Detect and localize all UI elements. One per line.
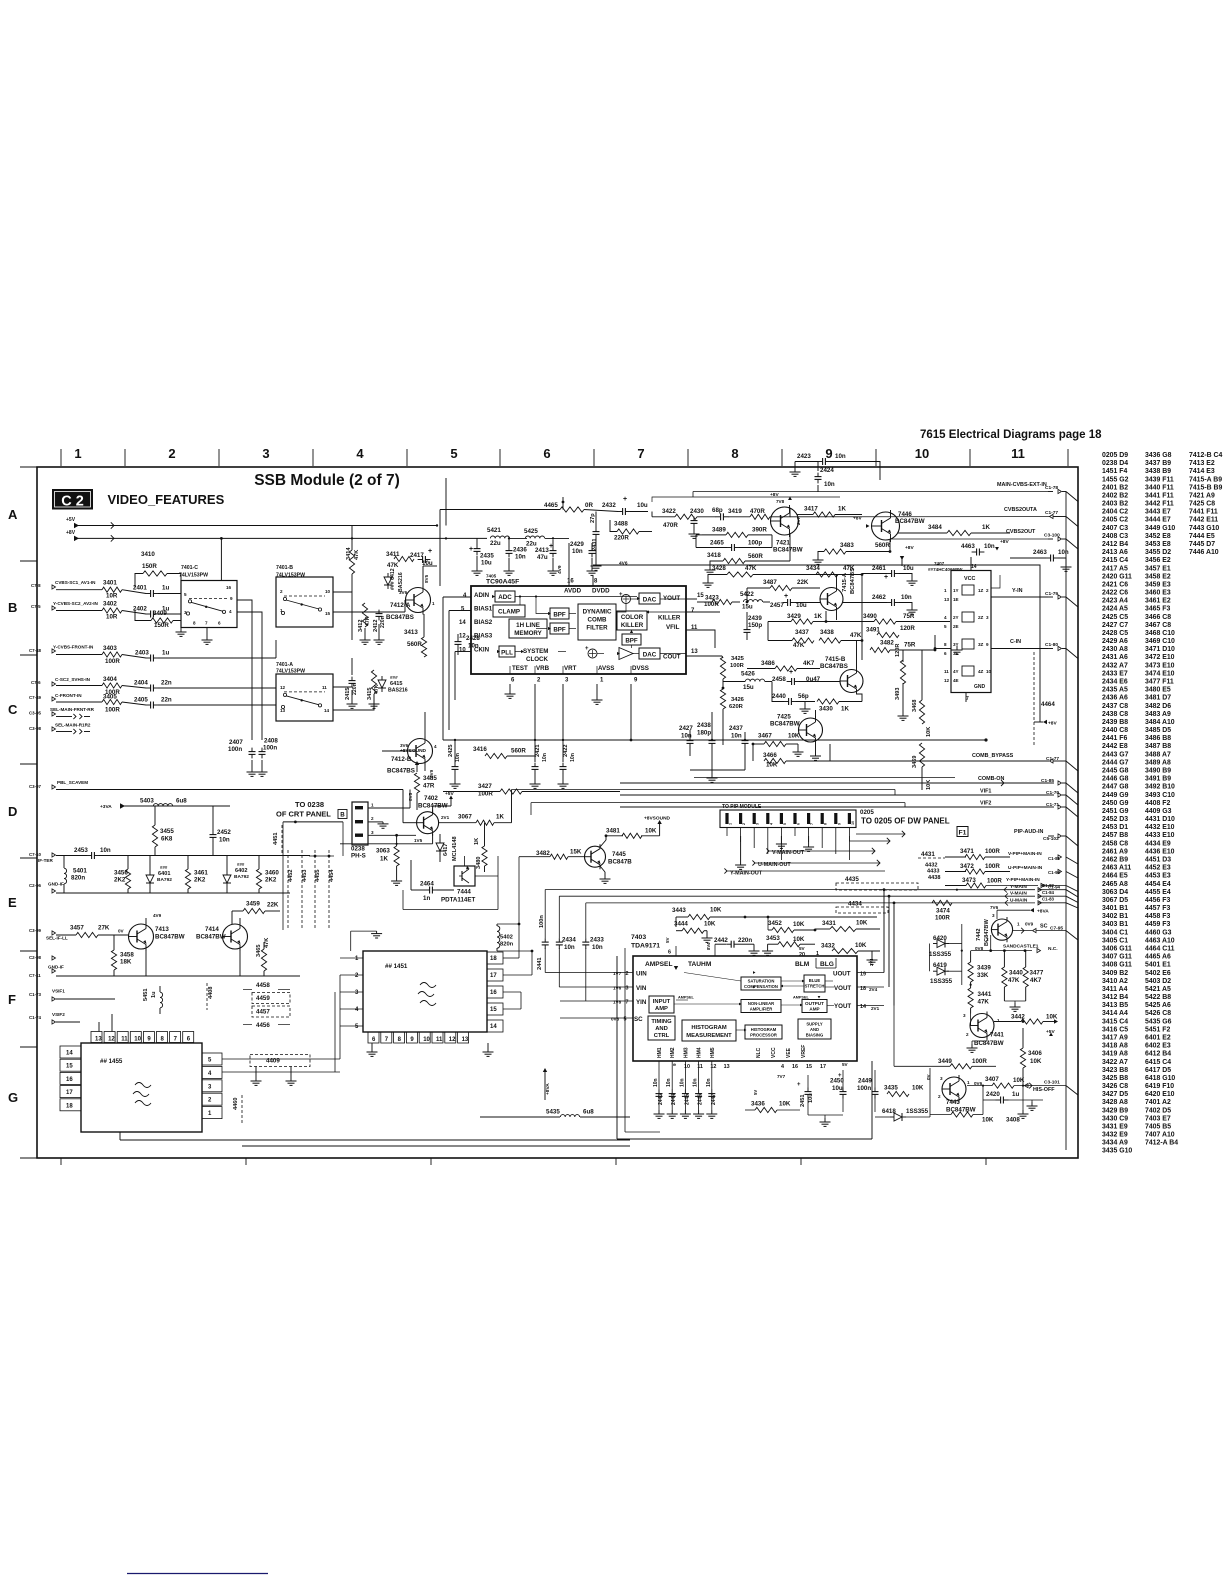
transistor 7415-A BC847BS [820,588,843,611]
svg-text:ADC: ADC [498,594,512,601]
svg-text:10n: 10n [679,1078,685,1087]
svg-text:2420 G11: 2420 G11 [1102,573,1132,580]
svg-text:75R: 75R [903,613,915,620]
svg-text:2: 2 [371,816,374,821]
svg-text:16: 16 [490,990,497,996]
svg-text:22n: 22n [161,680,172,687]
svg-text:2440 C8: 2440 C8 [1102,727,1128,734]
svg-text:2420: 2420 [986,1091,1000,1098]
svg-text:3484 A10: 3484 A10 [1145,719,1175,726]
svg-text:3486: 3486 [761,660,775,667]
svg-text:3487 B8: 3487 B8 [1145,743,1171,750]
svg-text:100R: 100R [730,663,745,669]
wire loop inner [624,948,626,1132]
svg-text:3439: 3439 [977,965,991,972]
svg-text:10: 10 [915,446,929,461]
block NON-LINEAR AMPLIFIER [741,1000,781,1013]
svg-text:10n: 10n [542,753,548,762]
svg-text:5435: 5435 [546,1109,560,1116]
wire 7401-B out [333,592,352,640]
svg-text:10n: 10n [515,554,526,561]
svg-text:7425 C8: 7425 C8 [1189,501,1215,508]
ground 2440 [804,702,806,706]
svg-text:14: 14 [971,564,977,570]
svg-text:2438: 2438 [697,722,711,729]
svg-text:VFIL: VFIL [666,624,680,631]
svg-text:2451 G9: 2451 G9 [1102,808,1129,815]
svg-text:3427: 3427 [478,783,492,790]
svg-text:10u: 10u [481,560,492,567]
svg-text:2: 2 [280,589,283,594]
block ADC [495,591,515,602]
svg-text:3422 A7: 3422 A7 [1102,1059,1128,1066]
svg-text:SATURATION: SATURATION [748,979,775,984]
svg-text:C 2: C 2 [61,494,84,510]
svg-text:120R: 120R [900,625,915,632]
svg-text:11: 11 [436,1037,443,1043]
svg-text:15u: 15u [743,684,754,691]
svg-text:3466 C8: 3466 C8 [1145,614,1171,621]
wire 1455 right bus [222,1058,340,1060]
svg-text:7445 D7: 7445 D7 [1189,541,1215,548]
svg-text:6K8: 6K8 [161,836,173,843]
svg-text:2413 A6: 2413 A6 [1102,549,1128,556]
svg-text:3469: 3469 [912,756,918,768]
svg-text:6402: 6402 [235,868,247,874]
svg-text:7443: 7443 [946,1099,960,1106]
svg-text:100R: 100R [985,863,1000,870]
svg-text:2453 D1: 2453 D1 [1102,824,1128,831]
svg-text:150p: 150p [748,622,762,629]
svg-text:C7-48: C7-48 [29,648,42,653]
svg-text:4434: 4434 [848,901,862,908]
block PLL [499,646,515,657]
svg-text:10: 10 [986,669,992,674]
svg-text:+: + [884,574,888,581]
ground 2462 [911,606,913,610]
svg-text:7413 E2: 7413 E2 [1189,460,1215,467]
svg-text:3403 B1: 3403 B1 [1102,921,1128,928]
svg-text:15: 15 [697,593,704,599]
wire row1 [56,589,102,591]
block TIMING AND CTRL [648,1016,675,1040]
svg-text:2: 2 [742,823,746,825]
svg-text:CVBS2OUTA: CVBS2OUTA [1004,507,1037,513]
svg-text:11: 11 [322,685,327,690]
svg-text:10u: 10u [903,565,914,572]
pin 14 1455 [60,1046,81,1058]
svg-text:BPF: BPF [553,612,566,619]
transistor 7421 BC847BW [771,507,799,535]
svg-text:VIDEO_FEATURES: VIDEO_FEATURES [108,492,225,507]
ground 0238 pin2 [368,821,383,823]
wire pip drops [726,828,728,836]
svg-text:UIN: UIN [636,971,647,978]
amp triangle [619,648,633,660]
svg-text:AND: AND [655,1026,668,1032]
svg-text:C3-97: C3-97 [29,784,42,789]
svg-text:+: + [585,646,589,652]
svg-text:3425: 3425 [731,656,745,662]
ground AVSS [596,684,598,696]
svg-text:OF CRT PANEL: OF CRT PANEL [276,810,331,819]
svg-text:1u: 1u [151,991,157,998]
svg-text:7615 Electrical Diagrams page: 7615 Electrical Diagrams page 18 [920,429,1102,441]
wire bus 802 [530,803,532,815]
svg-text:100n: 100n [857,1085,871,1092]
svg-text:0V: 0V [118,929,125,934]
svg-text:Y-MAIN: Y-MAIN [1010,884,1027,890]
svg-text:560R: 560R [511,748,526,755]
svg-text:B: B [340,812,345,819]
svg-text:4: 4 [356,446,364,461]
net +8VSOUND 3481 [657,820,661,824]
svg-text:6u8: 6u8 [583,1109,594,1116]
svg-text:C3-99: C3-99 [29,928,42,933]
svg-text:2437: 2437 [729,725,743,732]
ground 2431 [595,562,597,566]
svg-text:4451: 4451 [273,833,279,845]
svg-text:3: 3 [963,1013,966,1018]
svg-text:47K: 47K [264,938,270,948]
wire 7401-A out [333,686,352,688]
svg-text:3410: 3410 [141,551,155,558]
svg-text:4409 G3: 4409 G3 [1145,808,1172,815]
svg-text:G: G [8,1090,18,1105]
IC 1455 [81,1043,202,1132]
transistor 7445 BC847B [585,846,606,867]
svg-text:2415: 2415 [345,688,351,700]
svg-text:7412-A B4: 7412-A B4 [1145,1140,1178,1147]
ground cluster C4 [351,690,353,700]
footer link line [127,1573,268,1575]
svg-text:3485 D5: 3485 D5 [1145,727,1171,734]
svg-text:6417 D5: 6417 D5 [1145,1067,1171,1074]
svg-text:13: 13 [95,1037,102,1043]
svg-text:2V4: 2V4 [869,958,874,966]
transistor 7413 BC847BW [129,924,154,949]
svg-text:7402 D5: 7402 D5 [1145,1107,1171,1114]
wire COUT right [686,655,722,657]
summing node 1 [622,595,631,604]
svg-text:HM2: HM2 [670,1047,676,1058]
svg-text:3422: 3422 [662,508,676,515]
svg-text:9: 9 [230,596,233,601]
svg-text:9: 9 [672,1063,677,1066]
svg-text:68p: 68p [712,507,723,514]
svg-text:UOUT: UOUT [833,971,851,978]
svg-text:75R: 75R [904,642,916,649]
svg-text:2: 2 [938,1094,941,1099]
svg-text:15: 15 [806,1064,812,1070]
wire 4V6 loop [593,565,1040,722]
svg-text:10: 10 [851,821,855,825]
svg-text:NLC: NLC [756,1047,762,1058]
svg-text:SSB Module (2 of 7): SSB Module (2 of 7) [254,472,400,489]
svg-text:120R: 120R [895,644,901,657]
svg-text:DAC: DAC [643,597,657,604]
svg-text:2425 C5: 2425 C5 [1102,614,1128,621]
svg-text:3: 3 [626,986,629,992]
svg-text:14: 14 [459,620,466,626]
wire sel2 [56,731,72,733]
svg-text:4452: 4452 [288,870,294,882]
ground 3467b [797,744,799,748]
svg-text:3: 3 [992,913,995,918]
svg-text:C3-98: C3-98 [29,726,42,731]
svg-text:COUT: COUT [663,654,681,661]
svg-text:15: 15 [490,1007,497,1013]
svg-text:10n: 10n [666,1078,672,1087]
svg-text:SANDCASTLE1: SANDCASTLE1 [1003,944,1039,950]
svg-text:7446 A10: 7446 A10 [1189,549,1219,556]
svg-text:C7-6: C7-6 [31,680,41,685]
svg-text:7407 A10: 7407 A10 [1145,1132,1175,1139]
svg-text:3469 C10: 3469 C10 [1145,638,1175,645]
svg-text:5403: 5403 [140,798,154,805]
wire 3410 branch [135,574,143,588]
svg-text:2417 A5: 2417 A5 [1102,565,1128,572]
svg-text:6: 6 [218,621,221,626]
svg-text:3: 3 [756,823,760,825]
svg-text:5402: 5402 [500,935,513,941]
svg-text:3466: 3466 [763,752,777,759]
svg-text:2423: 2423 [797,453,811,460]
svg-text:SEL-IF-LL: SEL-IF-LL [46,936,68,941]
svg-text:2421 C6: 2421 C6 [1102,581,1128,588]
svg-text:2441 F6: 2441 F6 [1102,735,1127,742]
svg-text:620R: 620R [729,704,744,710]
wire 7444 loop [403,909,498,911]
svg-text:3468 C10: 3468 C10 [1145,630,1175,637]
svg-text:3480 E5: 3480 E5 [1145,687,1171,694]
svg-text:0V9: 0V9 [1025,922,1034,927]
wire left verticals [442,597,444,740]
svg-text:17: 17 [490,973,497,979]
svg-text:12: 12 [710,1064,716,1070]
svg-text:3489 A8: 3489 A8 [1145,759,1171,766]
svg-text:5425 A6: 5425 A6 [1145,1002,1171,1009]
svg-text:4V9: 4V9 [153,913,162,918]
ground 2421 [534,780,536,784]
svg-text:3423 B8: 3423 B8 [1102,1067,1128,1074]
wire loop left [616,956,618,1139]
svg-text:3460: 3460 [265,870,279,877]
net +8V right [1043,720,1047,724]
svg-text:8V4: 8V4 [706,942,711,950]
svg-text:AMPSEL: AMPSEL [793,996,810,1000]
wire sel1 [56,716,72,718]
svg-text:560R: 560R [407,641,422,648]
svg-text:4457 F3: 4457 F3 [1145,905,1170,912]
svg-text:2461 A9: 2461 A9 [1102,848,1128,855]
ground 7425 [815,752,817,756]
svg-text:C2-96: C2-96 [29,883,42,888]
svg-text:3488: 3488 [614,521,628,528]
net +5V 3442 [1054,1019,1058,1023]
svg-text:4452 E3: 4452 E3 [1145,865,1171,872]
svg-text:4464 C11: 4464 C11 [1145,946,1175,953]
svg-text:C7-49: C7-49 [29,695,42,700]
svg-text:14: 14 [324,708,330,713]
svg-text:2K2: 2K2 [265,877,277,884]
svg-text:C1-79: C1-79 [1045,591,1058,597]
svg-text:1V5: 1V5 [414,838,423,843]
svg-text:+: + [428,548,432,555]
svg-text:16: 16 [226,585,232,590]
wire 3067 up [511,790,513,823]
svg-text:+: + [784,593,788,600]
svg-text:3E: 3E [953,651,959,656]
svg-text:1: 1 [432,601,435,606]
svg-text:10n: 10n [592,944,603,951]
svg-text:KILLER: KILLER [621,622,644,629]
svg-text:HM4: HM4 [697,1047,703,1058]
svg-text:2408: 2408 [264,738,278,745]
svg-text:3404: 3404 [103,676,117,683]
wire 3488 [610,520,617,532]
svg-text:10n: 10n [901,594,912,601]
block SUPPLY AND BIASING [798,1019,831,1039]
svg-text:3401: 3401 [103,580,117,587]
svg-text:74LV153PW: 74LV153PW [179,573,208,579]
svg-text:+: + [549,543,553,550]
svg-text:7403 E7: 7403 E7 [1145,1115,1171,1122]
ground 2430 [693,530,695,534]
svg-text:7405 B5: 7405 B5 [1145,1124,1171,1131]
svg-text:C1-70: C1-70 [1046,790,1059,796]
svg-text:3Y: 3Y [953,642,959,647]
svg-text:4V6: 4V6 [619,561,628,567]
svg-text:5422: 5422 [740,591,754,598]
svg-text:1u: 1u [162,650,169,657]
svg-text:2405 C2: 2405 C2 [1102,517,1128,524]
svg-text:Y-MAIN-OUT: Y-MAIN-OUT [730,871,763,877]
svg-text:3453 E8: 3453 E8 [1145,541,1171,548]
ground 7441 [986,1038,988,1042]
svg-text:3487: 3487 [763,579,777,586]
svg-text:100n: 100n [539,915,545,928]
svg-text:7407: 7407 [934,561,945,566]
svg-text:BPF: BPF [553,627,566,634]
svg-text:V-PIP+MAIN-IN: V-PIP+MAIN-IN [1008,851,1042,857]
ground 2436 [508,567,510,571]
svg-text:## 1455: ## 1455 [100,1058,123,1065]
svg-text:1: 1 [729,823,733,825]
svg-text:3453: 3453 [766,935,780,942]
wire 4465 row [440,509,560,511]
svg-text:3474: 3474 [936,908,950,915]
svg-text:AMPLIFIER: AMPLIFIER [750,1007,773,1012]
svg-text:PH-S: PH-S [351,853,366,860]
svg-text:2401 B2: 2401 B2 [1102,484,1128,491]
wire 0238 pin1 [368,807,410,809]
svg-text:7414: 7414 [205,926,219,933]
svg-text:1: 1 [1017,922,1020,927]
svg-text:7: 7 [205,621,208,626]
svg-text:47K: 47K [365,616,371,626]
svg-text:2428 C5: 2428 C5 [1102,630,1128,637]
svg-text:3417: 3417 [804,506,818,513]
svg-text:3468: 3468 [912,700,918,712]
svg-text:TO 0205 OF DW PANEL: TO 0205 OF DW PANEL [861,817,950,826]
svg-text:C1-93: C1-93 [1048,870,1061,875]
wire Y-IN [991,596,1048,598]
svg-text:3437 B9: 3437 B9 [1145,460,1171,467]
svg-text:3419 A8: 3419 A8 [1102,1051,1128,1058]
ground 3444 [706,931,708,934]
svg-text:5402 E6: 5402 E6 [1145,970,1171,977]
svg-text:1u: 1u [1012,1091,1019,1098]
svg-text:B: B [8,600,17,615]
wire row2 [56,610,102,612]
svg-text:BA792: BA792 [234,874,249,880]
svg-text:7441 F11: 7441 F11 [1189,509,1218,516]
svg-text:4408: 4408 [208,987,214,999]
svg-text:4451 D3: 4451 D3 [1145,857,1171,864]
svg-text:###: ### [160,865,168,870]
wire 4453 tie [309,855,334,857]
svg-text:2401: 2401 [133,585,147,592]
block CLAMP [493,605,525,617]
svg-text:3428: 3428 [712,565,726,572]
svg-text:14: 14 [860,1004,866,1010]
svg-text:14: 14 [490,1024,497,1030]
svg-text:VRB: VRB [536,665,550,672]
svg-text:2444 G7: 2444 G7 [1102,759,1129,766]
svg-text:+: + [789,669,793,676]
svg-text:2457: 2457 [770,602,784,609]
wire 0238 pin3 [368,834,416,836]
svg-text:2407 C3: 2407 C3 [1102,525,1128,532]
svg-text:AMPSEL: AMPSEL [678,996,695,1000]
svg-text:PBL_SCAVEM: PBL_SCAVEM [57,780,88,785]
svg-text:+8V: +8V [1048,721,1057,727]
svg-text:2412 B4: 2412 B4 [1102,541,1128,548]
svg-text:2412: 2412 [373,620,379,632]
block HISTOGRAM MEASUREMENT [682,1020,736,1041]
svg-text:2429 A6: 2429 A6 [1102,638,1128,645]
wire crt bus [283,821,343,823]
svg-text:3441: 3441 [978,991,992,998]
svg-text:3458 E2: 3458 E2 [1145,573,1171,580]
svg-text:16: 16 [792,1064,798,1070]
wire row3 [56,654,102,656]
svg-text:2E: 2E [953,624,959,629]
svg-text:YOUT: YOUT [834,1003,851,1010]
bottom ruler ticks [60,1158,62,1165]
block HISTOGRAM PROCESSOR [745,1025,782,1039]
svg-text:SEL-MAIN-R1R2: SEL-MAIN-R1R2 [55,723,91,728]
svg-text:2450 G9: 2450 G9 [1102,800,1129,807]
svg-text:22K: 22K [267,902,279,909]
svg-text:VIF2: VIF2 [980,801,991,807]
svg-text:10n: 10n [572,548,583,555]
svg-text:C1-80: C1-80 [1045,642,1058,648]
svg-text:3410 A2: 3410 A2 [1102,978,1128,985]
svg-text:2415 C4: 2415 C4 [1102,557,1128,564]
wire VIN loop [559,895,889,897]
svg-text:AMP: AMP [809,1007,819,1012]
svg-text:10n: 10n [824,481,835,488]
svg-text:100R: 100R [985,848,1000,855]
svg-text:6u8: 6u8 [176,798,187,805]
ground 7401-C [206,628,208,637]
svg-text:VIF1: VIF1 [980,789,991,795]
svg-text:4460 G3: 4460 G3 [1145,929,1172,936]
wire 7425 collector [815,710,817,718]
svg-text:5435 G6: 5435 G6 [1145,1018,1172,1025]
